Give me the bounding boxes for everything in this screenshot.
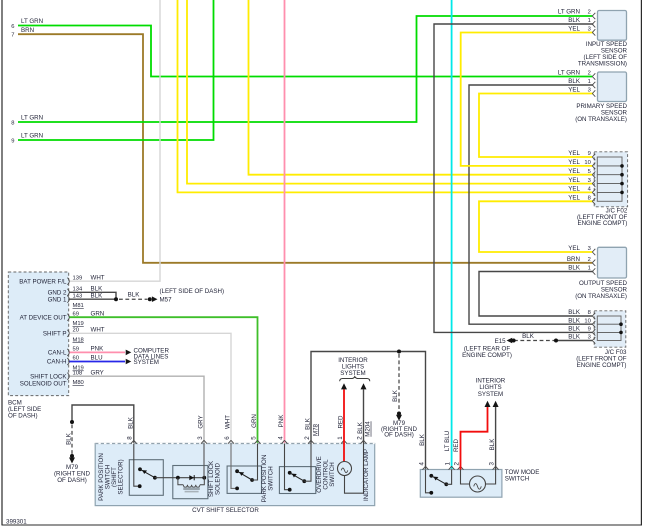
svg-text:8: 8 — [588, 310, 591, 316]
svg-text:LT BLU: LT BLU — [444, 431, 451, 451]
svg-text:3: 3 — [588, 88, 591, 94]
svg-text:BLK: BLK — [522, 333, 535, 340]
junction connector J/C F03 dashed box — [576, 311, 627, 369]
svg-text:SOLENOID: SOLENOID — [215, 462, 222, 495]
svg-text:PNK: PNK — [278, 414, 285, 428]
svg-text:OF DASH): OF DASH) — [8, 413, 38, 420]
shift lock solenoid L1 — [155, 444, 222, 499]
interior lights system left arrows and brace — [338, 357, 370, 390]
svg-text:M57: M57 — [160, 297, 173, 304]
interior lights system right label — [476, 377, 506, 397]
svg-text:BLK: BLK — [419, 433, 426, 446]
svg-text:OF DASH): OF DASH) — [384, 432, 414, 439]
BCM harness connector labels — [73, 303, 84, 386]
wire 6 LT GRN pin6 to primary speed sensor pin2 — [11, 18, 592, 77]
CVT shift selector box — [95, 444, 375, 515]
svg-text:YEL: YEL — [568, 150, 580, 157]
svg-text:SWITCH: SWITCH — [505, 476, 529, 483]
svg-text:8: 8 — [588, 196, 591, 202]
svg-text:BAT POWER F/L: BAT POWER F/L — [19, 278, 67, 285]
svg-text:9: 9 — [588, 151, 591, 157]
wire BLK primary speed sensor pin1 to J/C F03 pin 10 — [469, 78, 593, 324]
ground M79 left with dashed BLK and wire to CVT pin 8 — [54, 405, 134, 484]
wire BLK tow pin3 to interior lights right — [489, 401, 499, 470]
BCM pin numbers and wire colors — [73, 274, 105, 376]
tow mode switch lamp DS2 — [461, 470, 496, 493]
svg-text:LT GRN: LT GRN — [558, 9, 580, 16]
svg-text:4: 4 — [277, 436, 284, 440]
svg-text:YEL: YEL — [568, 195, 580, 202]
svg-text:5: 5 — [250, 436, 257, 440]
svg-text:3: 3 — [197, 436, 204, 440]
svg-text:SHIFT LOCK: SHIFT LOCK — [30, 373, 67, 380]
svg-text:139: 139 — [73, 275, 83, 281]
svg-text:1: 1 — [588, 79, 591, 85]
svg-text:BLK: BLK — [489, 438, 496, 451]
tow mode switch pin connectors — [423, 466, 499, 469]
overdrive control switch S3 — [279, 444, 336, 494]
svg-text:5: 5 — [588, 169, 591, 175]
svg-text:BLK: BLK — [128, 292, 141, 299]
svg-text:GRY: GRY — [91, 369, 104, 376]
wire GRN AT DEVICE OUT to CVT pin 5 — [70, 317, 258, 443]
svg-text:SWITCH: SWITCH — [268, 466, 275, 490]
svg-text:6: 6 — [224, 436, 231, 440]
svg-text:BLK: BLK — [568, 78, 581, 85]
wire YEL from top to J/C F02 pin 5 — [249, 0, 593, 175]
primary speed sensor pin connectors — [592, 73, 595, 96]
svg-text:BLK: BLK — [66, 432, 73, 445]
BCM label — [8, 400, 41, 420]
wire PNK CAN-L to computer data lines — [70, 350, 132, 356]
svg-text:4: 4 — [418, 462, 425, 466]
svg-text:LT GRN: LT GRN — [21, 18, 43, 25]
wire YEL J/C F02 pin8 to output speed sensor pin3 — [479, 195, 593, 253]
svg-text:ENGINE COMPT): ENGINE COMPT) — [577, 362, 627, 369]
wire RED tow pin2 to interior lights right — [453, 401, 491, 470]
svg-text:1: 1 — [337, 436, 344, 440]
svg-text:9: 9 — [588, 327, 591, 333]
wire YEL primary speed sensor pin3 to J/C F02 pin 9 — [479, 87, 593, 158]
svg-text:399301: 399301 — [6, 519, 27, 526]
svg-text:YEL: YEL — [568, 245, 580, 252]
svg-text:LT GRN: LT GRN — [558, 70, 580, 77]
svg-text:2: 2 — [453, 462, 460, 466]
ground E15 with dashed BLK wire to J/C F03 pin 3 — [462, 333, 592, 359]
page border bottom — [2, 524, 643, 526]
input speed sensor pin connectors — [592, 13, 595, 36]
svg-text:WHT: WHT — [225, 415, 232, 429]
svg-text:3: 3 — [588, 27, 591, 33]
svg-text:(ON TRANSAXLE): (ON TRANSAXLE) — [575, 116, 627, 123]
park position switch (shift selector) S1 — [98, 444, 163, 501]
wire BLK M204 CVT pin2 to interior lights — [363, 389, 365, 443]
wire BLU CAN-H to computer data lines — [70, 359, 132, 365]
svg-text:GRY: GRY — [198, 415, 205, 428]
wire BLK input speed sensor pin1 to J/C F03 pin 9 — [434, 17, 593, 332]
svg-text:2: 2 — [588, 71, 591, 77]
tow mode switch pin numbers — [418, 462, 495, 466]
svg-text:SWITCH: SWITCH — [329, 462, 336, 486]
svg-text:3: 3 — [489, 462, 496, 466]
svg-text:BRN: BRN — [567, 256, 580, 263]
J/C F02 pin connectors — [592, 154, 595, 205]
svg-text:SYSTEM: SYSTEM — [134, 359, 159, 366]
svg-text:RED: RED — [453, 438, 460, 452]
svg-text:YEL: YEL — [568, 26, 580, 33]
svg-text:ENGINE COMPT): ENGINE COMPT) — [577, 220, 627, 227]
svg-text:ENGINE COMPT): ENGINE COMPT) — [462, 352, 512, 359]
svg-text:GND 1: GND 1 — [48, 296, 67, 303]
svg-text:LT GRN: LT GRN — [21, 115, 43, 122]
wire BLK output speed sensor pin1 to J/C F03 pin 8 — [479, 265, 593, 317]
svg-text:BLK: BLK — [127, 416, 134, 429]
svg-text:M81: M81 — [73, 303, 84, 309]
svg-text:YEL: YEL — [568, 159, 580, 166]
svg-text:3: 3 — [588, 178, 591, 184]
svg-text:YEL: YEL — [568, 168, 580, 175]
svg-text:M80: M80 — [73, 380, 84, 386]
svg-text:E15: E15 — [495, 338, 507, 345]
wire BLK GND2 — [70, 292, 117, 299]
svg-text:SELECTOR): SELECTOR) — [118, 459, 125, 494]
svg-text:BLK: BLK — [568, 309, 581, 316]
svg-text:1: 1 — [445, 462, 452, 466]
primary speed sensor box — [575, 72, 627, 123]
wire 7 BRN pin7 to output speed sensor pin2 — [11, 27, 592, 263]
svg-text:CVT SHIFT SELECTOR: CVT SHIFT SELECTOR — [192, 507, 259, 514]
svg-text:SYSTEM: SYSTEM — [478, 391, 503, 398]
tow mode switch contacts — [426, 470, 452, 495]
svg-text:9: 9 — [11, 139, 14, 145]
svg-text:BLK: BLK — [568, 326, 581, 333]
svg-text:BLK: BLK — [568, 317, 581, 324]
svg-text:8: 8 — [127, 436, 134, 440]
wire LT BLU from top to tow mode switch pin 1 — [451, 0, 453, 470]
svg-text:TRANSMISSION): TRANSMISSION) — [578, 61, 627, 68]
svg-text:BRN: BRN — [21, 27, 34, 34]
svg-text:1: 1 — [588, 266, 591, 272]
wire BLK M78 CVT pin2 to tow mode switch pin4 and ground M79 — [311, 350, 426, 470]
BCM pin connectors — [67, 278, 69, 380]
svg-text:BLK: BLK — [392, 389, 399, 402]
svg-text:3: 3 — [588, 246, 591, 252]
tow mode switch box — [420, 469, 539, 497]
svg-text:YEL: YEL — [568, 177, 580, 184]
svg-text:BLK: BLK — [568, 17, 581, 24]
svg-text:6: 6 — [11, 24, 14, 30]
svg-text:SYSTEM: SYSTEM — [340, 370, 365, 377]
svg-text:CAN-H: CAN-H — [47, 359, 67, 366]
rotated wire color labels at CVT pins — [198, 414, 372, 437]
svg-text:M78: M78 — [312, 423, 319, 436]
svg-text:INDICATOR LAMP: INDICATOR LAMP — [363, 449, 370, 501]
svg-text:CAN-L: CAN-L — [48, 350, 67, 357]
svg-text:8: 8 — [11, 121, 14, 127]
wire WHT vertical to BCM pin 139 — [70, 0, 161, 281]
svg-text:1: 1 — [588, 18, 591, 24]
wire WHT SHIFT P to CVT pin 6 — [70, 333, 232, 443]
svg-text:M18: M18 — [73, 337, 84, 343]
svg-text:WHT: WHT — [91, 274, 105, 281]
svg-text:AT DEVICE OUT: AT DEVICE OUT — [20, 314, 67, 321]
svg-text:BLK: BLK — [568, 334, 581, 341]
wire GRY SHIFT LOCK SOLENOID OUT to CVT pin 3 — [70, 376, 205, 443]
svg-text:M19: M19 — [73, 321, 84, 327]
svg-text:2: 2 — [588, 257, 591, 263]
wire YEL input speed sensor pin3 to J/C F02 pin 10 — [461, 26, 594, 166]
indicator lamp DS1 — [338, 444, 370, 502]
svg-text:3: 3 — [588, 335, 591, 341]
svg-text:YEL: YEL — [568, 186, 580, 193]
svg-text:WHT: WHT — [91, 327, 105, 334]
park position switch S2 — [227, 444, 275, 503]
wire YEL from top to J/C F02 pin 3 — [187, 0, 592, 184]
page border right — [640, 0, 642, 525]
svg-text:SHIFT P: SHIFT P — [43, 331, 67, 338]
svg-text:SOLENOID OUT: SOLENOID OUT — [20, 380, 67, 387]
svg-text:2: 2 — [304, 436, 311, 440]
svg-text:10: 10 — [584, 318, 590, 324]
output speed sensor box — [575, 247, 627, 299]
svg-text:2: 2 — [356, 436, 363, 440]
svg-text:(ON TRANSAXLE): (ON TRANSAXLE) — [575, 293, 627, 300]
svg-text:2: 2 — [588, 10, 591, 16]
svg-text:(LEFT SIDE OF DASH): (LEFT SIDE OF DASH) — [160, 288, 225, 295]
svg-text:BLK: BLK — [568, 265, 581, 272]
wire 8 LT GRN pin8 to input speed sensor pin2 — [11, 9, 592, 127]
page border left — [1, 0, 3, 525]
CVT pin connectors row — [131, 440, 367, 443]
wire YEL from top to J/C F02 pin 4 — [178, 0, 593, 193]
J/C F03 pin connectors — [592, 313, 595, 344]
CVT pin numbers — [127, 436, 364, 440]
wire RED CVT pin1 to interior lights — [343, 389, 345, 443]
svg-text:7: 7 — [11, 33, 14, 39]
input speed sensor box — [578, 11, 628, 68]
svg-text:OF DASH): OF DASH) — [57, 477, 87, 484]
svg-text:GRN: GRN — [251, 414, 258, 428]
svg-text:M19: M19 — [73, 366, 84, 372]
BCM dashed box — [8, 272, 68, 396]
output speed sensor pin connectors — [592, 249, 595, 275]
svg-text:10: 10 — [584, 160, 590, 166]
svg-text:M204: M204 — [365, 421, 372, 437]
svg-text:BLK: BLK — [91, 292, 104, 299]
svg-text:YEL: YEL — [568, 87, 580, 94]
wire 9 LT GRN pin9 off page top — [11, 0, 213, 145]
wire PNK from top to CVT shift selector pin 4 — [284, 0, 286, 444]
computer data lines system label — [134, 348, 170, 367]
junction connector J/C F02 dashed box — [577, 152, 628, 227]
wire BLK GND1 to ground M57 — [70, 288, 225, 304]
svg-text:LT GRN: LT GRN — [21, 133, 43, 140]
